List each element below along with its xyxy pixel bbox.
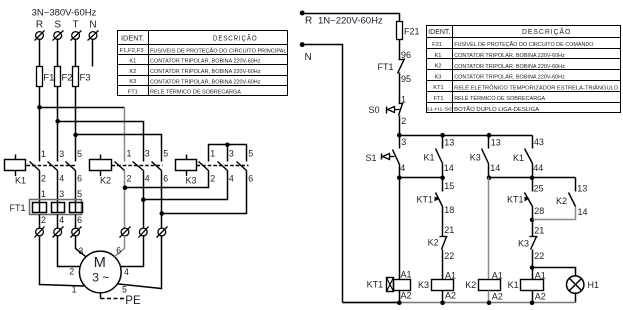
timed contact KT1 25-28	[525, 193, 533, 207]
wire K3-14 down to node B2	[488, 164, 490, 178]
terminal R	[35, 31, 45, 41]
svg-text:2: 2	[41, 215, 46, 225]
wire R fuse to K1 pole 1	[39, 87, 41, 162]
rail A after S0	[400, 135, 533, 137]
svg-text:4: 4	[145, 174, 150, 184]
wire phase S down to fuse F2	[57, 39, 59, 67]
terminal V1	[53, 227, 64, 238]
svg-text:4: 4	[59, 174, 64, 184]
svg-text:K3: K3	[435, 74, 442, 80]
svg-text:1: 1	[41, 189, 46, 199]
terminal N control	[300, 42, 305, 47]
svg-text:H1: H1	[588, 280, 600, 290]
K3 pole 3 contact	[218, 162, 228, 171]
svg-text:CONTATOR TRIPOLAR, BOBINA 220V: CONTATOR TRIPOLAR, BOBINA 220V-60Hz	[454, 75, 565, 81]
node rail A S1	[397, 133, 402, 138]
svg-text:5: 5	[77, 189, 82, 199]
wire K3-22 to K1 coil	[532, 250, 534, 280]
svg-text:S1: S1	[365, 153, 376, 163]
svg-text:43: 43	[534, 137, 544, 147]
contact K1 43-44 branch wire	[532, 136, 534, 149]
wire K2 pole 1 drop (grey)	[124, 108, 126, 162]
svg-text:IDENT.: IDENT.	[121, 36, 144, 43]
wire bus S to K2 pole 3	[58, 122, 144, 162]
svg-text:14: 14	[490, 163, 500, 173]
wire terminal U2 to motor 4	[120, 236, 144, 267]
wire K2 pole 1 down (grey)	[124, 171, 126, 229]
svg-text:R: R	[305, 16, 312, 27]
svg-text:3: 3	[59, 189, 64, 199]
svg-text:K1: K1	[15, 176, 26, 186]
K3 star bridge	[209, 145, 247, 162]
svg-text:5: 5	[163, 149, 168, 159]
svg-text:13: 13	[444, 138, 454, 148]
svg-text:F21: F21	[432, 42, 442, 48]
fuse F1	[39, 67, 41, 87]
node R bus tap	[37, 105, 42, 110]
svg-text:FUSÍVEL DE PROTEÇÃO DO CIRCUIT: FUSÍVEL DE PROTEÇÃO DO CIRCUITO DE COMAN…	[454, 41, 594, 48]
svg-text:N: N	[305, 52, 312, 63]
K3 mechanical link	[197, 165, 249, 167]
svg-text:IDENT.: IDENT.	[428, 29, 450, 36]
svg-text:FT1: FT1	[128, 89, 138, 95]
node T bus tap	[73, 133, 78, 138]
wire N rail	[302, 45, 342, 303]
svg-text:18: 18	[444, 205, 454, 215]
wire terminal V2 to motor 5	[118, 236, 162, 289]
node K3 A2	[440, 301, 445, 306]
wire F21 to FT1	[399, 45, 401, 60]
wire S0 to rail A	[399, 116, 401, 149]
K1 pole 3 contact	[48, 162, 58, 171]
svg-text:FT1: FT1	[10, 203, 26, 213]
wire K2-14 to node 28 (grey)	[533, 207, 576, 220]
wire FT1 outputs to terminals	[39, 215, 41, 229]
svg-text:6: 6	[163, 174, 168, 184]
svg-text:K2: K2	[100, 176, 111, 186]
svg-text:6: 6	[77, 174, 82, 184]
wire K2-6 to K3-6	[162, 171, 247, 214]
contact K2 21-22 (NC)	[440, 236, 448, 238]
svg-text:2: 2	[401, 116, 406, 126]
terminal S	[53, 31, 64, 41]
svg-text:K2: K2	[556, 196, 567, 206]
wire R to F21	[302, 14, 399, 22]
wire K1 pole 1 to FT1	[39, 171, 41, 203]
FT1 element 2	[52, 203, 65, 213]
svg-text:BOTÃO DUPLO LIGA-DESLIGA: BOTÃO DUPLO LIGA-DESLIGA	[454, 106, 539, 113]
wire K3 coil to rail N	[442, 291, 444, 303]
svg-text:K3: K3	[129, 79, 136, 85]
terminal R control	[300, 11, 305, 16]
svg-text:DESCRIÇÃO: DESCRIÇÃO	[522, 27, 571, 36]
svg-text:RELÉ TÉRMICO DE SOBRECARGA: RELÉ TÉRMICO DE SOBRECARGA	[454, 95, 545, 102]
wire K1 pole 3 to FT1	[57, 171, 59, 203]
svg-text:96: 96	[401, 50, 411, 60]
svg-text:2: 2	[210, 174, 215, 184]
svg-text:CONTATOR TRIPOLAR, BOBINA 220V: CONTATOR TRIPOLAR, BOBINA 220V-60Hz	[454, 53, 565, 59]
wire to lamp H1	[533, 268, 576, 277]
contact FT1 95-96 (NC)	[399, 59, 404, 61]
wire S1-4 to rail B1	[399, 165, 401, 178]
svg-text:KT1: KT1	[433, 85, 443, 91]
K1 mechanical link	[27, 165, 77, 167]
svg-text:A1: A1	[445, 270, 456, 280]
wire K2 pole 5 down	[161, 171, 163, 229]
svg-text:F1,F2,F3: F1,F2,F3	[120, 48, 144, 54]
node K2-6 / K3-6	[160, 211, 165, 216]
svg-text:1: 1	[401, 94, 406, 104]
node KT1 A2	[397, 301, 402, 306]
svg-text:4: 4	[229, 174, 234, 184]
wire K1 pole 5 to FT1	[75, 171, 77, 203]
svg-text:13: 13	[491, 138, 501, 148]
wire KT1 coil to rail N	[399, 291, 401, 303]
table legend right	[427, 26, 621, 113]
svg-text:F21: F21	[404, 27, 420, 37]
node S bus tap	[55, 119, 60, 124]
svg-text:N: N	[89, 20, 96, 31]
svg-text:6: 6	[248, 174, 253, 184]
svg-text:6: 6	[116, 246, 121, 256]
wire lamp to rail N	[575, 294, 577, 303]
fuse F21	[399, 22, 401, 45]
svg-text:K1: K1	[508, 280, 519, 290]
node 28	[530, 218, 535, 223]
terminal U2	[139, 227, 149, 238]
svg-text:1: 1	[127, 149, 132, 159]
K2 pole 1 contact	[115, 162, 125, 171]
svg-text:A2: A2	[401, 291, 412, 301]
contact K1 43-44 (NO)	[525, 149, 533, 164]
pushbutton S1 (NO)	[393, 150, 400, 165]
svg-text:3 ~: 3 ~	[92, 271, 109, 285]
contact K3 13-14 branch wire	[488, 136, 490, 149]
contact K3 21-22 (NC)	[530, 236, 538, 238]
wire bus T to K2 pole 5	[76, 135, 162, 162]
svg-text:15: 15	[444, 181, 454, 191]
svg-text:3: 3	[78, 246, 83, 256]
wire K2 coil to rail N (grey)	[488, 291, 490, 303]
wire KT1-28 to node 28	[532, 207, 534, 237]
svg-text:K3: K3	[186, 176, 197, 186]
svg-text:1: 1	[210, 149, 215, 159]
wire K2 pole 3 down	[143, 171, 145, 229]
wire FT1 to S0	[399, 73, 401, 104]
K3 pole 1 contact	[199, 162, 209, 171]
svg-text:14: 14	[578, 207, 588, 217]
svg-text:K2: K2	[428, 238, 439, 248]
svg-text:4: 4	[59, 215, 64, 225]
svg-text:DESCRIÇÃO: DESCRIÇÃO	[213, 34, 258, 43]
svg-text:14: 14	[444, 163, 454, 173]
node rail A K3	[487, 133, 492, 138]
wire KT1-18 down	[442, 207, 444, 237]
terminal W1	[71, 227, 82, 238]
wire neutral stub	[92, 39, 94, 67]
svg-text:3N~380V-60Hz: 3N~380V-60Hz	[32, 8, 97, 19]
svg-text:5: 5	[77, 149, 82, 159]
svg-text:S: S	[54, 20, 61, 31]
wire S fuse to K1 pole 3	[57, 87, 59, 162]
pushbutton S0 (NC)	[399, 103, 404, 105]
contact K3 13-14 (NO)	[482, 149, 489, 164]
svg-text:22: 22	[534, 251, 544, 261]
svg-text:KT1: KT1	[507, 195, 524, 205]
svg-text:FUSÍVEIS DE PROTEÇÃO DO CIRCUI: FUSÍVEIS DE PROTEÇÃO DO CIRCUITO PRINCIP…	[150, 47, 287, 54]
svg-text:K2: K2	[435, 64, 442, 70]
wire terminal W1 to motor 3	[76, 236, 87, 257]
wire S1 column down to KT1 coil	[399, 178, 401, 280]
svg-text:K1: K1	[513, 153, 524, 163]
node K3 bridge	[225, 143, 230, 148]
svg-text:S0: S0	[368, 105, 379, 115]
svg-text:PE: PE	[125, 295, 141, 307]
terminal N	[88, 31, 99, 41]
svg-text:A2: A2	[492, 292, 503, 302]
wire K1 coil to rail N	[532, 291, 534, 303]
svg-text:K2: K2	[129, 69, 136, 75]
lamp H1	[567, 276, 584, 293]
svg-text:2: 2	[127, 174, 132, 184]
contactor K3 operator	[176, 155, 197, 177]
svg-text:S1-H1-S0: S1-H1-S0	[426, 107, 452, 113]
svg-text:3: 3	[145, 149, 150, 159]
contact K1 13-14 (NO)	[436, 149, 443, 164]
svg-text:K1: K1	[423, 153, 434, 163]
svg-text:F3: F3	[80, 73, 91, 84]
svg-text:A1: A1	[492, 270, 503, 280]
svg-text:A1: A1	[535, 270, 546, 280]
node K2-4 / K3-4	[141, 197, 146, 202]
svg-text:K2: K2	[465, 280, 476, 290]
contact K1 13-14 branch wire	[442, 136, 444, 149]
terminal U1	[35, 227, 45, 238]
svg-text:K3: K3	[518, 239, 529, 249]
wire K2-4 to K3-4	[144, 171, 228, 200]
svg-text:RELÉ ELETRÔNICO TEMPORIZADOR E: RELÉ ELETRÔNICO TEMPORIZADOR ESTRELA-TRI…	[454, 84, 619, 91]
svg-text:A2: A2	[535, 292, 546, 302]
svg-text:F2: F2	[62, 73, 73, 84]
svg-text:2: 2	[69, 267, 74, 277]
contactor K1 operator	[5, 155, 26, 177]
wire phase R down to fuse F1	[39, 39, 41, 67]
svg-text:3: 3	[59, 149, 64, 159]
svg-text:A1: A1	[401, 270, 412, 280]
wire bus R to K2 pole 1	[40, 107, 125, 109]
wire terminal U1 to motor 1	[40, 236, 85, 287]
svg-text:21: 21	[534, 226, 544, 236]
terminal W2	[120, 227, 131, 238]
svg-text:RELÉ TÉRMICO DE SOBRECARGA: RELÉ TÉRMICO DE SOBRECARGA	[150, 89, 241, 96]
svg-text:K3: K3	[470, 153, 481, 163]
svg-text:CONTATOR TRIPOLAR, BOBINA 220V: CONTATOR TRIPOLAR, BOBINA 220V-60Hz	[150, 79, 261, 85]
svg-text:FT1: FT1	[433, 96, 443, 102]
svg-text:25: 25	[534, 184, 544, 194]
K2 pole 3 contact	[133, 162, 144, 171]
svg-text:4: 4	[124, 267, 129, 277]
svg-text:R: R	[36, 20, 43, 31]
svg-text:4: 4	[400, 163, 405, 173]
svg-text:28: 28	[534, 206, 544, 216]
rail B1 (S1/K1-14 seal)	[400, 177, 443, 179]
svg-text:T: T	[73, 20, 79, 31]
rail N bottom	[343, 302, 576, 304]
fuse F3	[75, 67, 77, 87]
svg-text:95: 95	[401, 74, 411, 84]
timed contact KT1 15-18	[436, 193, 443, 207]
K2 pole 5 contact	[152, 162, 162, 171]
wire phase T down to fuse F3	[75, 39, 77, 67]
svg-text:3: 3	[401, 137, 406, 147]
svg-text:2: 2	[41, 174, 46, 184]
motor M1 circle	[79, 251, 121, 293]
svg-text:5: 5	[248, 149, 253, 159]
K2 mechanical link	[112, 165, 163, 167]
rail B2 (K3-14 / K1-44 / K2-13)	[489, 177, 576, 179]
svg-text:13: 13	[577, 184, 587, 194]
svg-text:CONTATOR TRIPOLAR, BOBINA 220V: CONTATOR TRIPOLAR, BOBINA 220V-60Hz	[150, 69, 261, 75]
svg-text:22: 22	[444, 251, 454, 261]
contactor K2 operator	[90, 155, 112, 177]
table legend left	[118, 31, 288, 96]
svg-text:CONTATOR TRIPOLAR, BOBINA 220V: CONTATOR TRIPOLAR, BOBINA 220V-60Hz	[454, 64, 565, 70]
fuse F2	[57, 67, 59, 87]
K1 pole 1 contact	[30, 162, 40, 171]
svg-text:44: 44	[533, 163, 543, 173]
wire T fuse to K1 pole 5	[75, 87, 77, 162]
contact K2 13-14 aux branch	[575, 178, 577, 192]
svg-text:K3: K3	[418, 280, 429, 290]
FT1 through wires	[39, 203, 41, 213]
svg-text:3: 3	[229, 149, 234, 159]
svg-text:6: 6	[77, 215, 82, 225]
wire terminal V1 to motor 2	[58, 236, 81, 267]
FT1 element 3	[70, 203, 83, 213]
contact K2 13-14 (NO)	[569, 193, 576, 207]
wire terminal W2 to motor 6 (grey)	[115, 236, 125, 257]
terminal V2	[157, 227, 168, 238]
motor PE connection	[100, 293, 102, 299]
svg-text:CONTATOR TRIPOLAR, BOBINA 220V: CONTATOR TRIPOLAR, BOBINA 220V-60Hz	[150, 59, 261, 65]
svg-text:KT1: KT1	[367, 280, 384, 290]
svg-text:1: 1	[72, 285, 77, 295]
svg-text:KT1: KT1	[416, 195, 433, 205]
terminal T	[71, 31, 82, 41]
FT1 element 1	[33, 203, 47, 213]
node rail A K1	[440, 133, 445, 138]
svg-text:5: 5	[122, 284, 127, 294]
wire K3-14 to K2 coil (grey)	[488, 178, 490, 280]
thermal relay FT1	[30, 200, 82, 215]
wire K2-2 to K3-2	[125, 171, 209, 188]
node K1 A2	[530, 301, 535, 306]
svg-text:1: 1	[41, 149, 46, 159]
svg-text:K1: K1	[435, 53, 442, 59]
wire K1-14 down	[442, 164, 444, 192]
svg-text:A2: A2	[445, 291, 456, 301]
svg-text:21: 21	[444, 225, 454, 235]
node K2 A2	[487, 301, 492, 306]
wire K2-22 to K3 coil	[442, 250, 444, 280]
wire K1-44 down to node B3	[532, 164, 534, 192]
K3 pole 5 contact	[237, 162, 247, 171]
svg-text:1N~220V-60Hz: 1N~220V-60Hz	[318, 16, 383, 27]
node K2-2 / K3-2	[123, 185, 128, 190]
svg-text:K1: K1	[129, 59, 136, 65]
svg-text:F1: F1	[43, 73, 54, 84]
svg-text:FT1: FT1	[377, 62, 393, 72]
node lamp branch	[530, 265, 535, 270]
K1 pole 5 contact	[66, 162, 76, 171]
svg-text:M: M	[94, 255, 106, 271]
